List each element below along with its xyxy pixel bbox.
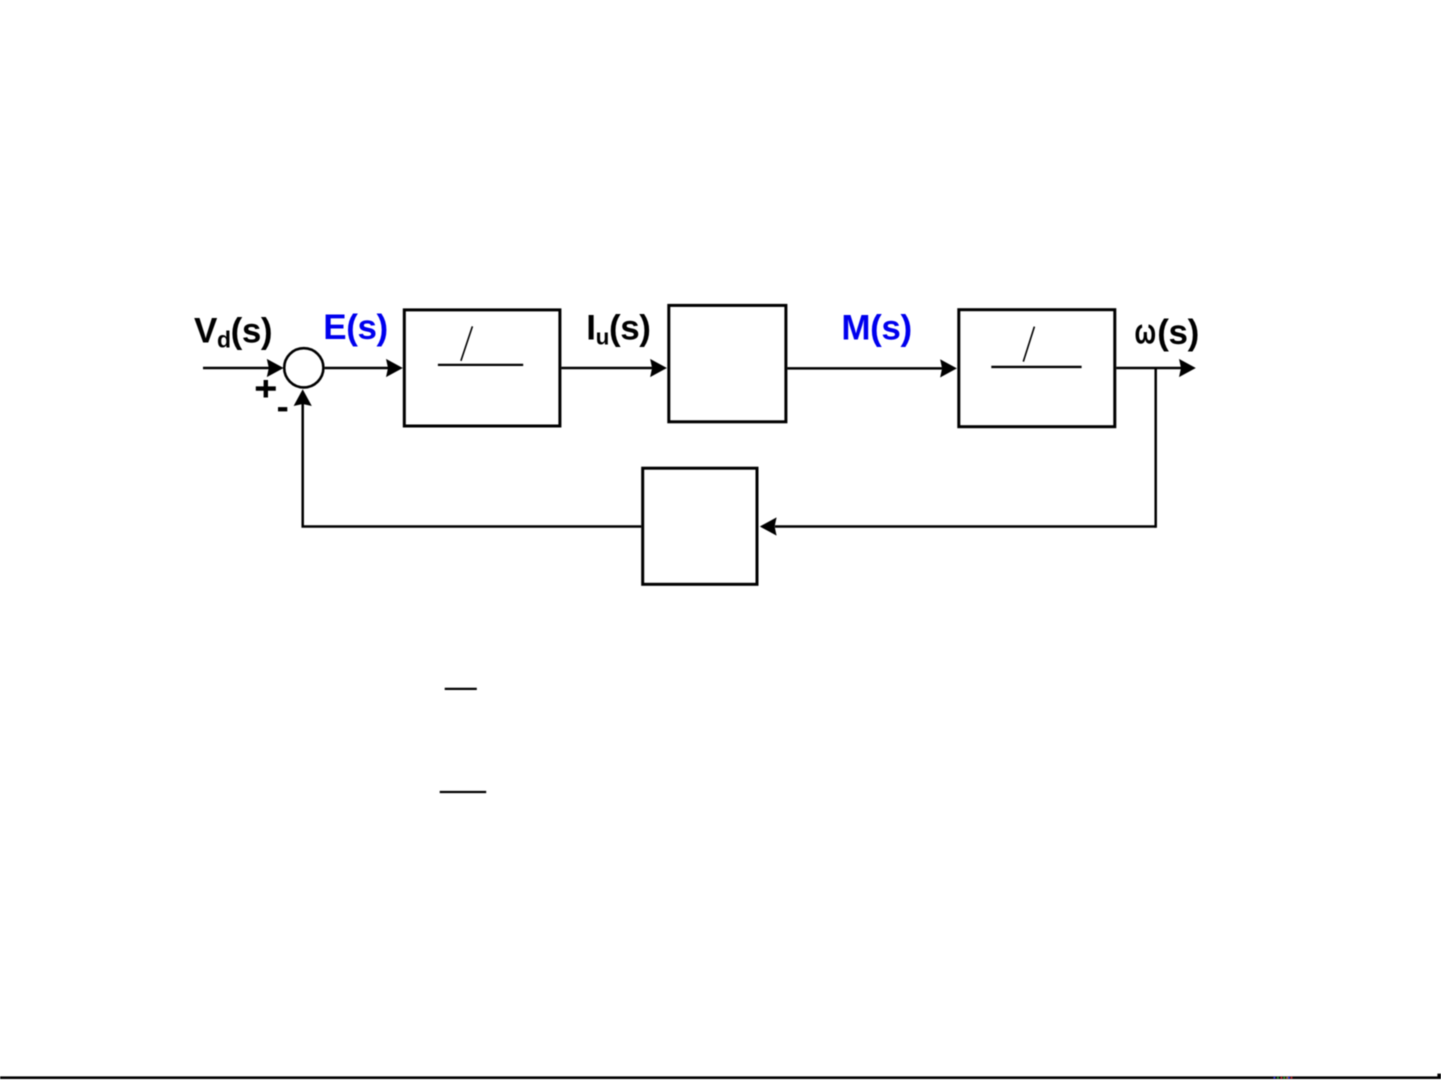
svg-text:Vd(s): Vd(s) [194,312,272,353]
svg-text:ω: ω [1135,313,1156,352]
svg-text:(s): (s) [1157,313,1199,352]
svg-text:E(s): E(s) [323,308,388,347]
svg-text:M(s): M(s) [841,308,911,347]
